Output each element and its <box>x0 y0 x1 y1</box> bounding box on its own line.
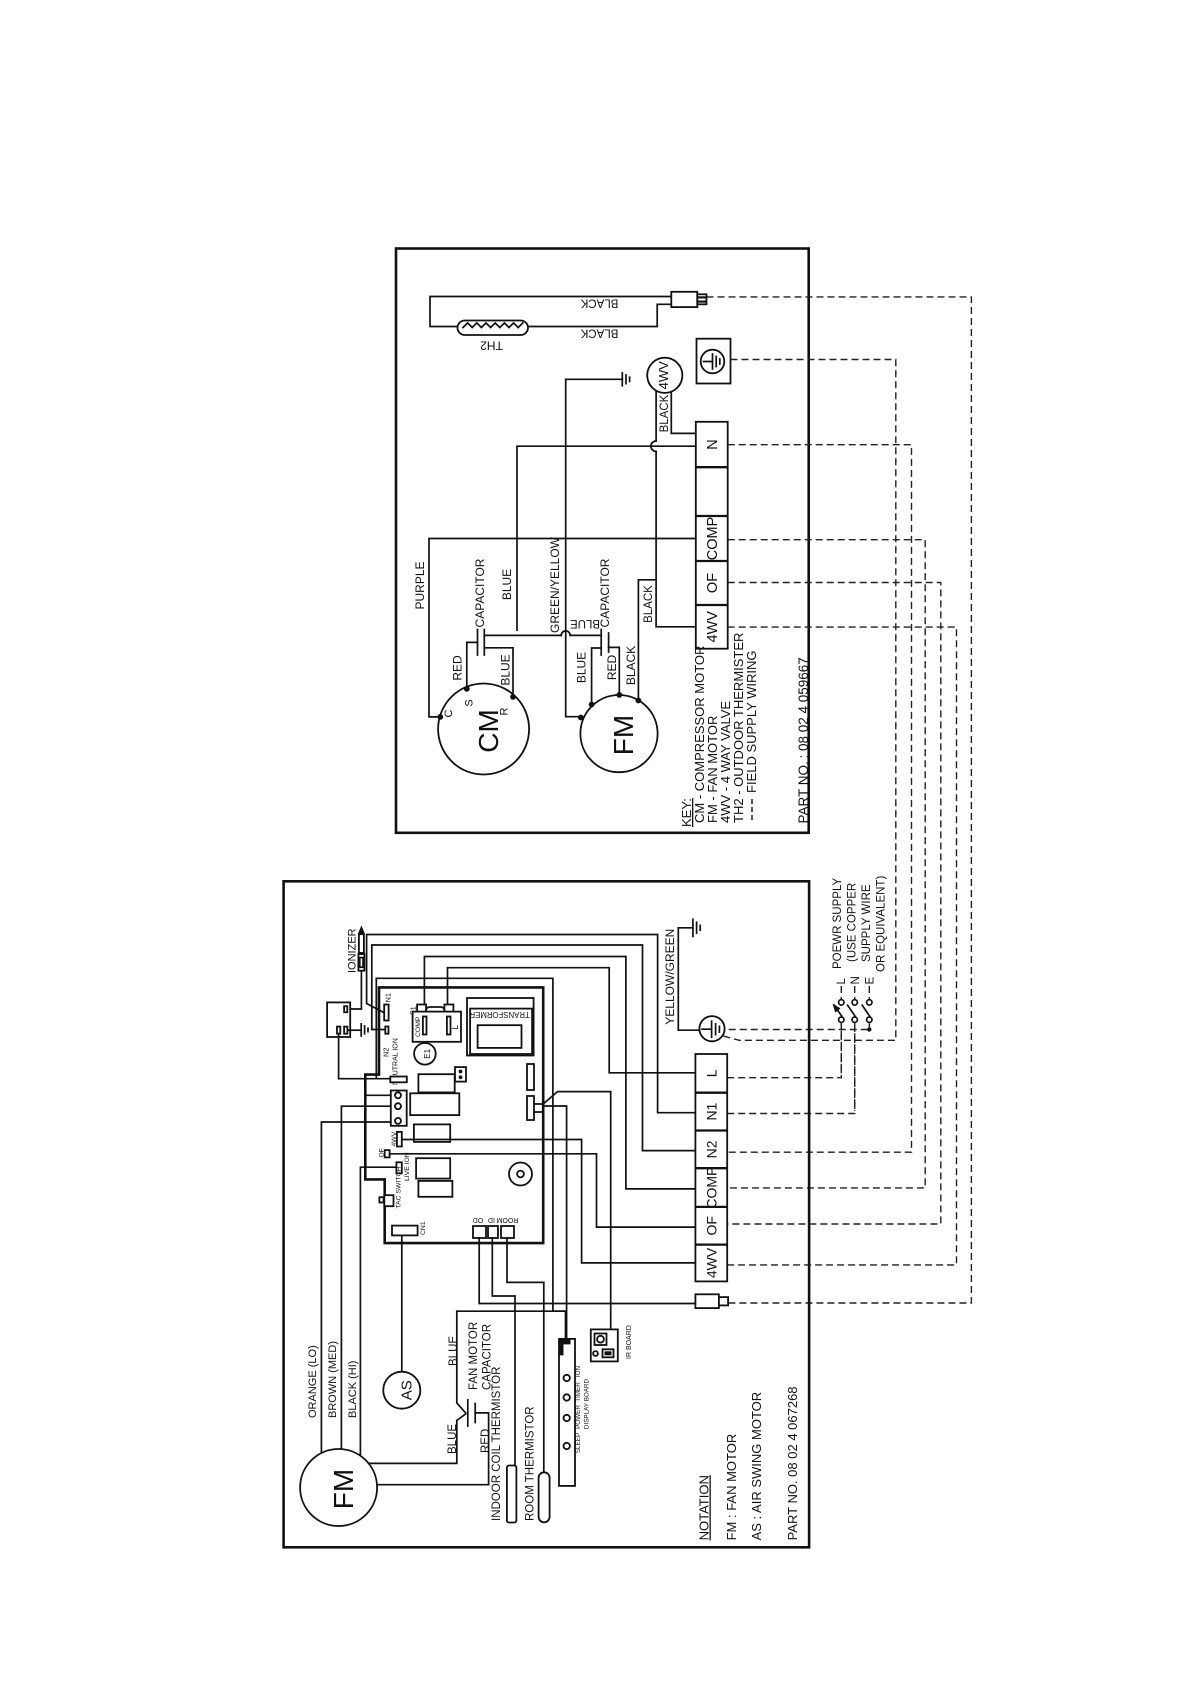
svg-text:L: L <box>836 978 848 985</box>
svg-text:BLUE: BLUE <box>499 654 513 685</box>
svg-text:PART NO. 08 02 4 067268: PART NO. 08 02 4 067268 <box>785 1386 800 1540</box>
svg-text:4WV: 4WV <box>703 1247 719 1278</box>
svg-text:FM: FM <box>328 1469 359 1509</box>
svg-text:POWER: POWER <box>575 1405 582 1429</box>
svg-text:PART NO. : 08 02 4 059667: PART NO. : 08 02 4 059667 <box>796 657 811 823</box>
svg-text:CAPACITOR: CAPACITOR <box>598 558 612 627</box>
svg-text:SLEEP: SLEEP <box>575 1433 582 1453</box>
svg-text:ROOM: ROOM <box>496 1216 518 1223</box>
svg-text:AS: AS <box>398 1380 415 1400</box>
svg-text:TRANSFORMER: TRANSFORMER <box>469 1010 530 1019</box>
svg-text:BLACK: BLACK <box>659 394 671 432</box>
svg-text:IR BOARD: IR BOARD <box>626 1325 633 1359</box>
svg-text:CN1: CN1 <box>420 1221 427 1235</box>
svg-text:(USE COPPER: (USE COPPER <box>847 883 859 962</box>
svg-text:R: R <box>499 707 511 715</box>
svg-text:L: L <box>703 1069 719 1077</box>
svg-text:4WV: 4WV <box>656 361 671 390</box>
svg-text:TIMER: TIMER <box>575 1382 582 1402</box>
svg-text:BROWN (MED): BROWN (MED) <box>327 1341 339 1418</box>
svg-text:TH2: TH2 <box>480 338 503 352</box>
svg-text:BLACK: BLACK <box>643 585 655 623</box>
svg-text:BLACK: BLACK <box>624 646 638 685</box>
svg-text:RED: RED <box>605 655 619 681</box>
svg-text:COMP: COMP <box>705 517 721 561</box>
svg-text:POEWR SUPPLY: POEWR SUPPLY <box>832 878 844 969</box>
svg-text:FAN MOTOR: FAN MOTOR <box>468 1322 480 1390</box>
svg-text:IONIZER: IONIZER <box>347 928 359 973</box>
svg-text:ORANGE (LO): ORANGE (LO) <box>307 1345 319 1418</box>
svg-text:COMP: COMP <box>415 1016 422 1037</box>
svg-text:CAPACITOR: CAPACITOR <box>473 558 487 627</box>
svg-text:FM: FM <box>608 715 639 755</box>
svg-text:OD: OD <box>473 1216 484 1223</box>
svg-text:E: E <box>865 977 877 985</box>
svg-text:OR EQUIVALENT): OR EQUIVALENT) <box>876 876 888 972</box>
svg-text:N2: N2 <box>382 1047 391 1057</box>
svg-text:BLACK: BLACK <box>580 296 618 308</box>
svg-text:ROOM THERMISTOR: ROOM THERMISTOR <box>525 1406 537 1521</box>
svg-text:ID: ID <box>488 1216 495 1223</box>
svg-text:ION: ION <box>575 1365 582 1377</box>
svg-text:OF: OF <box>705 573 721 593</box>
svg-text:TAC SWITCH: TAC SWITCH <box>396 1167 403 1209</box>
svg-text:N: N <box>705 439 721 449</box>
svg-text:4WV: 4WV <box>705 611 721 643</box>
svg-text:FM : FAN MOTOR: FM : FAN MOTOR <box>724 1434 739 1541</box>
svg-text:LIVE ION: LIVE ION <box>404 1152 411 1181</box>
svg-text:L: L <box>450 1025 460 1030</box>
svg-text:N1: N1 <box>703 1102 719 1120</box>
svg-text:YELLOW/GREEN: YELLOW/GREEN <box>663 929 677 1025</box>
svg-text:NOTATION: NOTATION <box>697 1475 712 1540</box>
svg-text:N: N <box>850 976 862 984</box>
svg-text:PURPLE: PURPLE <box>413 561 427 609</box>
svg-text:RED: RED <box>451 655 465 681</box>
svg-text:BLUE: BLUE <box>575 652 589 683</box>
svg-text:BLUE: BLUE <box>448 1336 460 1366</box>
svg-text:DISPLAY BOARD: DISPLAY BOARD <box>584 1378 591 1429</box>
svg-text:INDOOR COIL THERMISTOR: INDOOR COIL THERMISTOR <box>491 1367 503 1521</box>
svg-text:FIELD SUPPLY WIRING: FIELD SUPPLY WIRING <box>744 650 759 793</box>
svg-text:C: C <box>443 709 455 717</box>
svg-text:COMP: COMP <box>703 1167 719 1209</box>
svg-text:AS : AIR SWING MOTOR: AS : AIR SWING MOTOR <box>749 1392 764 1541</box>
svg-text:N2: N2 <box>703 1140 719 1158</box>
svg-text:BLUE: BLUE <box>500 569 514 600</box>
svg-text:BLACK: BLACK <box>580 326 618 338</box>
svg-text:BLUE: BLUE <box>447 1424 459 1454</box>
svg-text:BLUE: BLUE <box>570 617 600 629</box>
svg-text:S: S <box>464 699 476 706</box>
svg-text:OF: OF <box>703 1216 719 1235</box>
svg-text:E1: E1 <box>423 1048 432 1058</box>
svg-text:N1: N1 <box>384 993 393 1003</box>
svg-text:SUPPLY WIRE: SUPPLY WIRE <box>861 884 873 962</box>
svg-text:GREEN/YELLOW: GREEN/YELLOW <box>548 536 562 633</box>
svg-text:BLACK (HI): BLACK (HI) <box>347 1361 359 1418</box>
